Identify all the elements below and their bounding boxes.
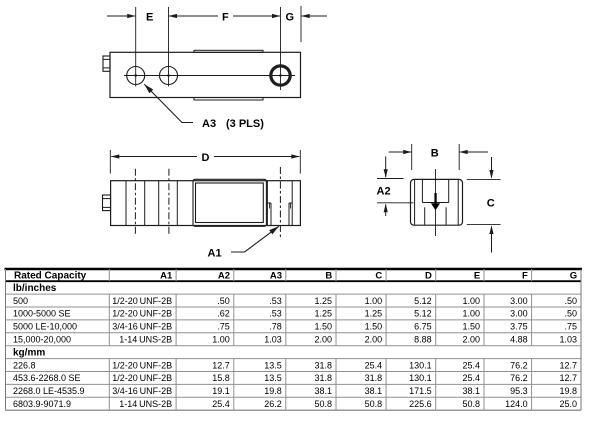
leader A3 arrow	[144, 84, 153, 93]
narrow bore left wall	[270, 203, 272, 225]
svg-text:76.2: 76.2	[510, 373, 528, 383]
gauge window outer	[193, 179, 266, 226]
dimension D line right	[214, 156, 299, 158]
end bore step line	[422, 202, 448, 204]
side view cable connector	[103, 195, 111, 211]
svg-text:31.8: 31.8	[314, 373, 332, 383]
dimension D left extension	[109, 150, 111, 174]
svg-text:B: B	[325, 271, 332, 282]
svg-text:25.4: 25.4	[462, 360, 480, 370]
extension line body right edge	[300, 6, 302, 42]
threaded hole A1 inner circle	[272, 67, 289, 84]
thread bore step right	[289, 202, 292, 204]
svg-text:D: D	[425, 271, 432, 282]
extension line through left hole	[135, 7, 137, 87]
end bore narrow right wall	[445, 207, 447, 225]
svg-text:76.2: 76.2	[510, 360, 528, 370]
svg-text:19.1: 19.1	[212, 386, 230, 396]
svg-text:25.0: 25.0	[559, 399, 577, 409]
table row 15,000-20,000	[13, 335, 577, 345]
dimension G arrow	[302, 15, 328, 17]
svg-text:1.00: 1.00	[365, 296, 383, 306]
top view body outline	[110, 52, 301, 97]
svg-text:1.25: 1.25	[314, 309, 332, 319]
dimension B right arrow	[460, 151, 488, 153]
svg-text:38.1: 38.1	[314, 386, 332, 396]
svg-text:2.00: 2.00	[365, 335, 383, 345]
machining line 4	[176, 181, 178, 225]
svg-text:F: F	[222, 11, 229, 23]
svg-text:130.1: 130.1	[409, 373, 432, 383]
table row 6803.9-9071.9	[13, 399, 577, 409]
side view body outline	[111, 181, 301, 226]
svg-text:Rated Capacity: Rated Capacity	[14, 271, 87, 282]
svg-text:G: G	[286, 11, 295, 23]
dimension B right extension	[458, 144, 460, 170]
hole centerline left dashed	[134, 169, 136, 234]
svg-text:5000 LE-10,000: 5000 LE-10,000	[13, 322, 77, 332]
svg-text:1/2-20 UNF-2B: 1/2-20 UNF-2B	[112, 309, 172, 319]
hole A3 left center dot	[135, 75, 137, 77]
svg-text:31.8: 31.8	[365, 373, 383, 383]
dimension C bottom extension	[467, 224, 501, 226]
right section right edge	[291, 181, 293, 225]
svg-text:.75: .75	[217, 322, 230, 332]
threaded hole A1 center dot	[280, 75, 282, 77]
end bore wide right wall	[448, 180, 450, 203]
svg-text:1.00: 1.00	[212, 335, 230, 345]
svg-text:.53: .53	[269, 296, 282, 306]
table outer side borders	[5, 269, 7, 410]
machining line 3	[158, 181, 160, 225]
svg-text:124.0: 124.0	[505, 399, 528, 409]
extension line through middle hole	[168, 7, 170, 87]
svg-text:5.12: 5.12	[414, 309, 432, 319]
gauge window inner	[196, 183, 264, 223]
svg-text:1/2-20 UNF-2B: 1/2-20 UNF-2B	[112, 296, 172, 306]
end view left chamfer line	[414, 180, 416, 225]
dimension A2 top arrow	[385, 156, 387, 177]
table top border	[5, 268, 583, 270]
svg-text:25.4: 25.4	[462, 373, 480, 383]
hole A3 left circle	[127, 67, 145, 85]
dimension D line left	[111, 154, 120, 158]
svg-text:A3: A3	[270, 271, 282, 282]
dimension B left extension	[411, 144, 413, 170]
svg-text:453.6-2268.0 SE: 453.6-2268.0 SE	[13, 373, 81, 383]
leader A1 arrow	[269, 226, 279, 234]
bore centerline dashed	[279, 167, 281, 237]
hole centerline right dashed	[168, 169, 170, 234]
svg-text:.53: .53	[269, 309, 282, 319]
end view body outline	[411, 179, 463, 225]
svg-text:6.75: 6.75	[414, 322, 432, 332]
svg-text:1-14 UNS-2B: 1-14 UNS-2B	[119, 335, 172, 345]
table row 453.6-2268.0 SE	[13, 373, 577, 383]
svg-text:8.88: 8.88	[414, 335, 432, 345]
table row 2268.0 LE-4535.9	[13, 386, 577, 396]
svg-text:3.75: 3.75	[510, 322, 528, 332]
svg-text:3/4-16 UNF-2B: 3/4-16 UNF-2B	[112, 322, 172, 332]
top view cable connector	[103, 56, 110, 71]
svg-text:130.1: 130.1	[409, 360, 432, 370]
svg-text:.50: .50	[564, 296, 577, 306]
svg-text:1.25: 1.25	[314, 296, 332, 306]
dimension C top extension	[467, 178, 501, 180]
svg-text:.50: .50	[217, 296, 230, 306]
threaded hole A1 outer ring	[269, 64, 292, 87]
dimension F line right	[233, 15, 280, 17]
svg-text:G: G	[570, 271, 577, 282]
svg-text:.78: .78	[269, 322, 282, 332]
dimension E arrow	[107, 15, 135, 17]
table row 500	[13, 296, 577, 306]
svg-text:19.8: 19.8	[264, 386, 282, 396]
svg-text:13.5: 13.5	[264, 373, 282, 383]
svg-text:50.8: 50.8	[365, 399, 383, 409]
thread bore step left	[267, 202, 271, 204]
svg-text:50.8: 50.8	[314, 399, 332, 409]
svg-text:26.2: 26.2	[264, 399, 282, 409]
svg-text:1.03: 1.03	[264, 335, 282, 345]
svg-text:A2: A2	[218, 271, 230, 282]
svg-text:226.8: 226.8	[13, 360, 36, 370]
svg-text:50.8: 50.8	[462, 399, 480, 409]
svg-text:1.50: 1.50	[365, 322, 383, 332]
svg-text:1000-5000 SE: 1000-5000 SE	[13, 309, 71, 319]
table header underline	[6, 280, 582, 282]
dimension A2 top extension	[377, 178, 404, 180]
svg-text:E: E	[474, 271, 480, 282]
svg-text:25.4: 25.4	[212, 399, 230, 409]
end view right chamfer line	[457, 180, 459, 225]
svg-text:12.7: 12.7	[559, 373, 577, 383]
svg-text:25.4: 25.4	[365, 360, 383, 370]
horizontal centerline through holes	[124, 75, 295, 77]
svg-text:5.12: 5.12	[414, 296, 432, 306]
end bore wide left wall	[421, 180, 423, 203]
svg-text:1/2-20 UNF-2B: 1/2-20 UNF-2B	[112, 360, 172, 370]
svg-text:500: 500	[13, 296, 28, 306]
right section left edge	[266, 181, 268, 225]
machining line 2	[144, 181, 146, 225]
svg-text:C: C	[487, 198, 495, 210]
table row 226.8	[13, 360, 577, 370]
end view centerline	[435, 169, 437, 236]
svg-text:3.00: 3.00	[510, 296, 528, 306]
svg-text:A1: A1	[160, 271, 173, 282]
svg-text:15,000-20,000: 15,000-20,000	[13, 335, 71, 345]
table row 5000 LE-10,000	[13, 322, 577, 332]
top view raised bottom plate	[194, 98, 263, 101]
svg-text:F: F	[522, 271, 528, 282]
table row 1000-5000 SE	[13, 309, 577, 319]
dimension B left arrow	[389, 151, 412, 153]
svg-text:D: D	[202, 152, 210, 164]
svg-text:38.1: 38.1	[462, 386, 480, 396]
svg-text:1.50: 1.50	[462, 322, 480, 332]
svg-text:3/4-16 UNF-2B: 3/4-16 UNF-2B	[112, 386, 172, 396]
svg-text:.50: .50	[564, 309, 577, 319]
svg-text:A1: A1	[208, 247, 222, 259]
svg-text:C: C	[375, 271, 382, 282]
dimension F line left	[169, 14, 178, 18]
svg-text:2268.0 LE-4535.9: 2268.0 LE-4535.9	[13, 386, 85, 396]
narrow bore right wall	[288, 203, 290, 225]
thread relief tick left	[269, 204, 271, 209]
table row separator lines	[6, 294, 582, 410]
svg-text:95.3: 95.3	[510, 386, 528, 396]
top view raised top plate	[194, 50, 263, 52]
svg-text:31.8: 31.8	[314, 360, 332, 370]
svg-text:lb/inches: lb/inches	[13, 283, 57, 294]
svg-text:171.5: 171.5	[409, 386, 432, 396]
svg-text:13.5: 13.5	[264, 360, 282, 370]
svg-text:6803.9-9071.9: 6803.9-9071.9	[13, 399, 71, 409]
machining line 1	[125, 181, 127, 225]
table column separator lines	[109, 269, 531, 410]
table header row text	[14, 271, 577, 282]
thread relief tick right	[289, 204, 291, 209]
svg-text:.75: .75	[564, 322, 577, 332]
svg-text:19.8: 19.8	[559, 386, 577, 396]
dimension D right extension	[299, 150, 301, 174]
svg-text:38.1: 38.1	[365, 386, 383, 396]
svg-text:2.00: 2.00	[314, 335, 332, 345]
svg-text:12.7: 12.7	[559, 360, 577, 370]
svg-text:A3: A3	[202, 118, 216, 130]
load direction arrow	[434, 193, 436, 203]
svg-text:15.8: 15.8	[212, 373, 230, 383]
svg-text:3.00: 3.00	[510, 309, 528, 319]
svg-text:1/2-20 UNF-2B: 1/2-20 UNF-2B	[112, 373, 172, 383]
svg-text:12.7: 12.7	[212, 360, 230, 370]
svg-text:1.00: 1.00	[462, 296, 480, 306]
svg-text:(3 PLS): (3 PLS)	[226, 118, 264, 130]
dimension A2 bottom arrow	[385, 205, 387, 217]
svg-text:kg/mm: kg/mm	[13, 347, 45, 358]
end bore narrow left wall	[424, 207, 426, 225]
svg-text:1.50: 1.50	[314, 322, 332, 332]
svg-text:1.00: 1.00	[462, 309, 480, 319]
svg-text:1.25: 1.25	[365, 309, 383, 319]
extension line through threaded hole	[280, 7, 282, 90]
svg-text:B: B	[431, 148, 439, 160]
hole A3 middle center dot	[168, 75, 170, 77]
dimension C bottom arrow	[491, 226, 493, 252]
svg-text:4.88: 4.88	[510, 335, 528, 345]
svg-text:A2: A2	[377, 186, 391, 198]
svg-text:2.00: 2.00	[462, 335, 480, 345]
svg-text:E: E	[146, 11, 153, 23]
svg-text:225.6: 225.6	[409, 399, 432, 409]
hole A3 middle circle	[160, 67, 178, 85]
svg-text:1-14 UNS-2B: 1-14 UNS-2B	[119, 399, 172, 409]
dimension C top arrow	[491, 157, 493, 178]
svg-text:1.03: 1.03	[559, 335, 577, 345]
dimension A2 bottom extension	[377, 202, 414, 204]
svg-text:.62: .62	[217, 309, 230, 319]
